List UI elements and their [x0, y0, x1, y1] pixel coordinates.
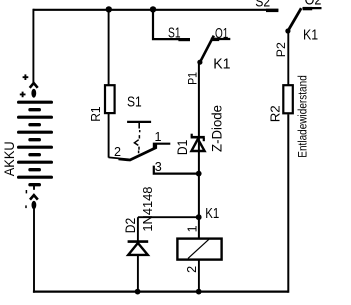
K1 contact O1 tip [211, 38, 219, 41]
S1 lever [119, 144, 156, 160]
wire right vertical [287, 114, 289, 292]
resistor R2 [283, 85, 293, 113]
wire S2 contact tip [266, 9, 278, 12]
svg-text:P1: P1 [185, 72, 199, 85]
zener diode D1 [175, 105, 225, 155]
battery bottom pin oval [32, 201, 37, 210]
battery AKKU [1, 74, 51, 209]
svg-text:2: 2 [185, 266, 199, 273]
K1 right lever [288, 8, 301, 31]
S1 contact 1 [154, 144, 170, 149]
K1 right contact O2 tip [303, 7, 313, 10]
svg-text:1: 1 [155, 130, 162, 144]
diode D2 [123, 187, 155, 292]
battery minus sign 2 [25, 205, 27, 208]
svg-text:3: 3 [155, 160, 162, 174]
wire D2 top [137, 217, 139, 241]
battery bottom tick [33, 186, 35, 190]
svg-text:D1: D1 [175, 140, 190, 156]
wire battery top drop [32, 9, 34, 83]
battery plates [19, 102, 52, 185]
relay coil box [177, 239, 221, 260]
svg-text:K1: K1 [213, 56, 230, 72]
wire D2 branch horizontal [138, 216, 199, 218]
battery top pin oval [31, 89, 36, 98]
node junction top S1 [150, 6, 156, 12]
svg-text:2: 2 [114, 145, 121, 159]
svg-text:AKKU: AKKU [1, 141, 17, 176]
D1 zener hook right [203, 138, 205, 141]
wire D2 bottom [137, 256, 139, 292]
battery plus sign 2 [20, 92, 26, 98]
svg-text:1N4148: 1N4148 [140, 187, 155, 232]
svg-text:P2: P2 [274, 42, 288, 57]
relay coil diagonal [188, 239, 209, 258]
K1 fixed contact S1 wire [153, 10, 190, 39]
node junction contact3 [196, 171, 202, 177]
svg-text:O2: O2 [305, 0, 322, 9]
wire top horizontal [33, 9, 278, 11]
K1 lever middle [200, 36, 214, 63]
S1 actuator T-bar [127, 121, 151, 123]
svg-text:Entladewiderstand: Entladewiderstand [296, 75, 310, 158]
changeover switch K1 middle [153, 10, 231, 85]
wire bottom horizontal [33, 291, 288, 293]
wire main vertical upper [198, 62, 200, 238]
svg-text:O1: O1 [215, 26, 228, 42]
svg-text:R1: R1 [88, 106, 103, 121]
wire battery bottom drop [33, 209, 35, 293]
K1 fixed contact S1 tip [178, 38, 190, 41]
battery minus sign 1 [25, 190, 27, 193]
svg-text:K1: K1 [205, 206, 219, 222]
svg-text:Z-Diode: Z-Diode [208, 105, 224, 152]
battery plus sign 1 [23, 74, 29, 80]
svg-text:1: 1 [185, 225, 199, 232]
D2 cathode bar [128, 240, 149, 243]
K1 right contact O2 line [303, 7, 322, 9]
node junction top R1 [106, 6, 112, 12]
svg-text:R2: R2 [268, 105, 283, 122]
pushbutton S1 [109, 94, 199, 174]
K1 contact O1 line [211, 38, 231, 40]
node junction bottom relay [196, 289, 202, 295]
svg-text:D2: D2 [123, 218, 138, 234]
wire relay bottom [198, 260, 200, 291]
S1 contact 2 stub [109, 157, 119, 158]
wire R2 top [287, 31, 289, 85]
svg-text:K1: K1 [303, 28, 318, 44]
relay coil K1 [177, 225, 221, 291]
S1 actuator stem [138, 122, 140, 129]
S1 actuator dashes [134, 130, 139, 153]
svg-text:S1: S1 [168, 26, 181, 42]
D1 zener hook left [191, 134, 193, 137]
battery top chevron terminal [30, 83, 38, 88]
D2 triangle [128, 243, 148, 255]
wire R1 top drop [108, 10, 110, 85]
node junction K1 coil top [196, 214, 202, 220]
S1 contact 3 [154, 166, 199, 174]
K1 right pivot dot [285, 28, 290, 33]
svg-text:S1: S1 [127, 94, 142, 110]
D1 cathode bar [191, 136, 205, 139]
switch K1 right [255, 0, 321, 57]
K1 lever pivot dot [197, 60, 202, 65]
resistor R1 [105, 85, 115, 113]
D1 triangle [191, 139, 204, 151]
svg-text:S2: S2 [255, 0, 270, 11]
wire R1 bottom [108, 114, 110, 158]
node junction bottom D2 [135, 289, 141, 295]
battery bottom chevron terminal [30, 195, 38, 200]
